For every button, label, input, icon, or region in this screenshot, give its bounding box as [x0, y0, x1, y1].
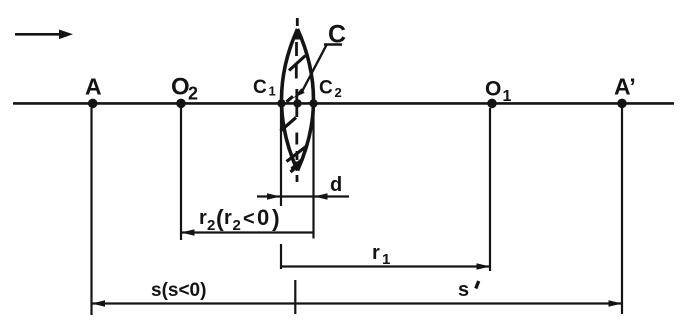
svg-text:C: C: [319, 78, 333, 99]
point C1 (left vertex): [253, 77, 286, 108]
svg-text:1: 1: [269, 84, 276, 99]
svg-text:2: 2: [207, 217, 215, 234]
svg-text:r: r: [372, 242, 380, 264]
point C (optical centre): [293, 99, 301, 107]
dimension d: [257, 174, 349, 200]
svg-text:2: 2: [335, 85, 342, 100]
dimension s / s': [92, 279, 623, 314]
point A': [614, 74, 636, 109]
extension line below C2 (for d and r2): [312, 106, 314, 239]
svg-text:<: <: [243, 208, 255, 230]
svg-text:O: O: [171, 74, 190, 101]
svg-text:s(s<0): s(s<0): [151, 280, 206, 301]
svg-text:d: d: [330, 174, 342, 196]
extension line below A': [621, 108, 623, 314]
dimension r1: [281, 242, 490, 270]
point O2: [171, 74, 198, 109]
svg-text:C: C: [253, 77, 267, 98]
svg-text:1: 1: [503, 88, 512, 105]
lens hatching: [281, 56, 307, 173]
svg-text:): ): [272, 205, 280, 231]
svg-text:r: r: [199, 207, 207, 229]
svg-text:r: r: [224, 207, 232, 229]
extension line below O1: [489, 108, 491, 271]
svg-text:0: 0: [257, 205, 269, 230]
centre divider tick: [294, 280, 296, 314]
svg-text:A: A: [85, 74, 102, 100]
svg-text:1: 1: [382, 251, 390, 268]
extension line below C1 (for d and r1): [280, 106, 282, 269]
svg-text:A’: A’: [614, 74, 636, 100]
optical axis: [13, 102, 674, 105]
dimension r2: [181, 205, 314, 236]
extension line below A: [90, 108, 92, 315]
svg-text:2: 2: [233, 217, 241, 234]
point O1: [485, 78, 512, 109]
lens center line (dashed): [296, 18, 297, 182]
svg-text:s: s: [458, 279, 469, 301]
svg-text:O: O: [485, 78, 501, 101]
extension line below O2: [180, 108, 182, 240]
svg-text:(: (: [216, 205, 224, 231]
point A: [85, 74, 102, 109]
label C with leader line: [294, 21, 347, 99]
incident light arrow: [15, 30, 73, 40]
lens outline: [282, 29, 314, 171]
svg-text:2: 2: [188, 84, 198, 104]
point C2 (right vertex): [309, 78, 341, 108]
